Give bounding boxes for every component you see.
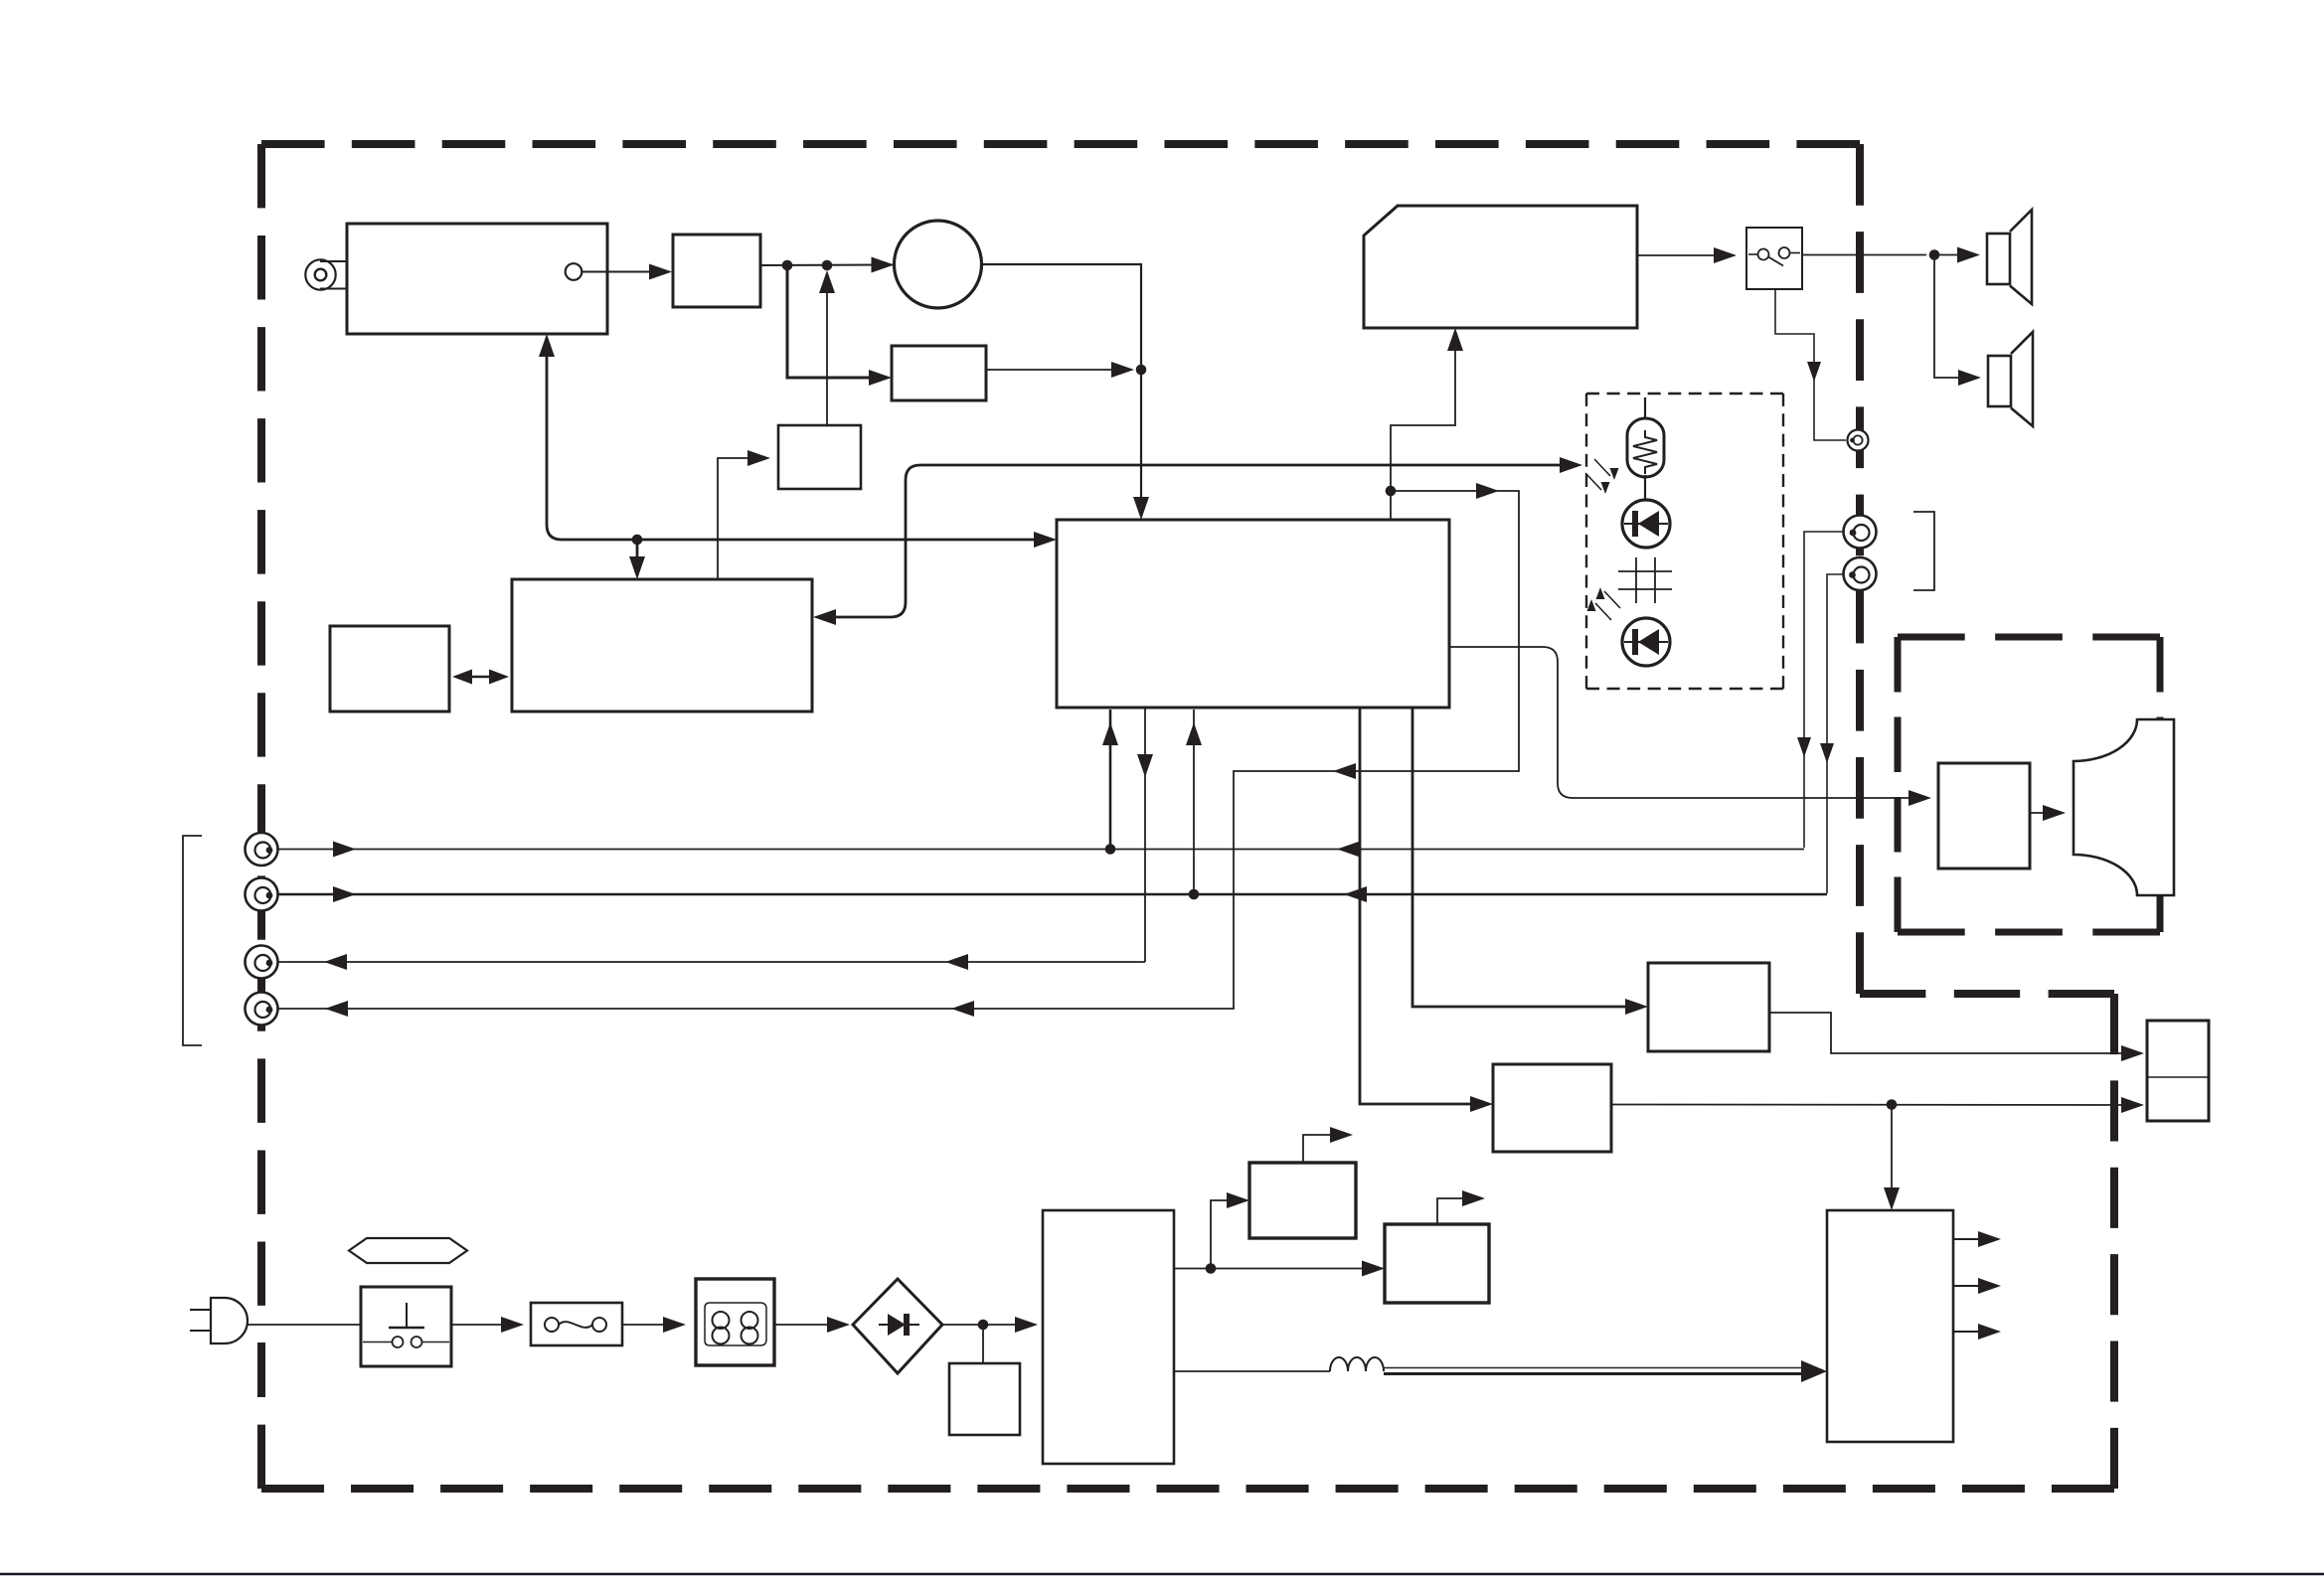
wire node1 down to EQ block <box>787 265 884 378</box>
wire motor to main IC <box>982 264 1142 513</box>
wire right jack B down to line2 <box>1827 574 1850 893</box>
wire main IC to syscon right edge <box>820 465 1571 617</box>
double wire to regulator block <box>1384 1367 1803 1369</box>
power amp block <box>1364 206 1637 328</box>
junction on amp wire <box>1386 486 1397 497</box>
speaker L <box>1987 234 2010 284</box>
bidirectional arrow display/syscon <box>459 676 502 679</box>
switch side stubs <box>1748 253 1758 255</box>
regulator output 2 <box>1953 1285 1992 1287</box>
left jack 3 <box>246 946 278 979</box>
aux line 1 <box>270 849 1804 851</box>
wire PS to regulator R1 <box>1174 1268 1376 1270</box>
wire syscon area to cassette/main IC <box>547 343 1048 540</box>
LED diode symbol <box>1624 641 1668 643</box>
wire aux L to main IC <box>1109 710 1112 850</box>
light ray arrows into photodiode <box>1594 459 1610 476</box>
cassette head circle <box>566 263 582 280</box>
rectifier diode symbol <box>879 1324 919 1326</box>
remote sensor dashed box <box>1586 393 1783 395</box>
wire switch to speakers <box>1802 254 1926 256</box>
R2 output arrow <box>1303 1135 1344 1163</box>
power supply block <box>1043 1210 1174 1464</box>
power switch symbol <box>406 1303 408 1328</box>
motor circle <box>895 221 982 308</box>
regulator block <box>1827 1210 1953 1442</box>
speaker switch box <box>1746 228 1802 289</box>
EQ block <box>892 346 986 400</box>
main unit dashed border left edge <box>257 144 265 1489</box>
wire aux R to main IC <box>1193 710 1195 894</box>
switch contact right <box>1779 247 1790 258</box>
left jack 4 <box>246 993 278 1026</box>
AC cord hexagon label <box>349 1238 467 1263</box>
AC plug <box>211 1298 248 1343</box>
junction on feedback wire <box>632 535 643 546</box>
arrow mute junction down to regulator <box>1891 1105 1893 1202</box>
wire syscon to bias osc <box>718 458 761 579</box>
wire switch to fuse <box>451 1324 515 1326</box>
wire cassette to preamp + arrow <box>581 271 663 273</box>
wire network to woofer <box>2030 812 2057 814</box>
regulator output 3 <box>1953 1331 1992 1333</box>
fuse symbol <box>545 1318 559 1332</box>
wire main IC to power amp <box>1391 336 1455 520</box>
wire main IC to headphone amp <box>1449 647 1922 798</box>
aux line 2 <box>270 893 1827 896</box>
main unit dashed border top edge <box>261 140 1860 148</box>
wire preamp output <box>760 264 894 267</box>
right jacks bracket <box>1913 512 1934 590</box>
arrow into motor circle <box>872 257 895 273</box>
cassette pulley outer circle <box>305 259 335 289</box>
wire right jack A down to line1 <box>1804 532 1851 848</box>
regulator R1 block <box>1385 1224 1489 1303</box>
ripple filter block <box>1648 963 1769 1051</box>
regulator output 1 <box>1953 1238 1992 1240</box>
wire switch to phones jack <box>1775 289 1846 440</box>
wire mute to indicator <box>1611 1104 2135 1107</box>
power transformer box <box>696 1279 774 1365</box>
phones jack <box>1848 430 1869 451</box>
wire junction up to R2 <box>1211 1200 1241 1269</box>
woofer speaker <box>2074 719 2174 895</box>
junction node 2 <box>822 260 833 271</box>
wire rectifier to power supply <box>942 1324 1029 1326</box>
junction aux L <box>1105 844 1116 855</box>
speaker R <box>1988 356 2011 406</box>
speaker system dashed box <box>1898 634 2160 641</box>
left jack 1 <box>246 833 278 866</box>
arrow into system control top <box>636 540 639 571</box>
switch lever <box>1768 257 1783 266</box>
right jack A <box>1844 516 1877 549</box>
cassette mechanism block <box>347 224 607 334</box>
main unit dashed border right edge lower <box>2110 994 2118 1489</box>
regulator R2 block <box>1249 1163 1356 1238</box>
junction motor/eq output <box>1136 365 1147 376</box>
system control block <box>512 579 812 711</box>
switch contact left <box>1758 249 1769 260</box>
photo diode symbol <box>1624 523 1668 525</box>
wire transformer to rectifier <box>774 1324 841 1326</box>
junction aux R <box>1189 889 1200 900</box>
display block <box>330 626 449 711</box>
lamp bottom lead <box>1644 475 1646 500</box>
main unit dashed border notch <box>1860 990 2114 998</box>
ceramic filter symbol <box>1618 570 1672 572</box>
pulley belt top line <box>320 260 348 262</box>
lamp capsule <box>1627 418 1664 477</box>
wire amp to speaker switch <box>1637 254 1728 256</box>
arrow into main IC top <box>1133 497 1149 520</box>
bias oscillator block <box>778 425 861 489</box>
preamp block <box>673 235 760 307</box>
inductor coil <box>1330 1357 1384 1371</box>
wire main IC to ripple filter <box>1412 708 1639 1007</box>
wire PS to inductor <box>1174 1370 1330 1372</box>
junction node 1 <box>782 260 793 271</box>
left jacks bracket <box>183 836 202 1045</box>
main unit dashed border bottom edge <box>261 1485 2114 1493</box>
indicator block <box>2147 1021 2209 1121</box>
junction speaker wire <box>1929 249 1940 260</box>
R1 output arrow <box>1437 1198 1476 1224</box>
wire junction to line-out L <box>270 491 1519 1009</box>
wire main IC to line3 <box>1144 708 1146 962</box>
transformer coils <box>705 1303 766 1328</box>
pulley belt bottom line <box>320 288 348 290</box>
left jack 2 <box>246 878 278 911</box>
wire main IC to mute block <box>1360 708 1484 1104</box>
page footer rule <box>0 1573 2324 1576</box>
wire bias osc up-arrow <box>826 274 828 425</box>
network block <box>1938 763 2030 868</box>
fuse box <box>531 1303 622 1345</box>
junction PS output <box>1206 1263 1217 1274</box>
photo diode circle <box>1622 500 1670 548</box>
lamp top lead <box>1644 397 1646 431</box>
bridge rectifier diamond <box>853 1279 942 1373</box>
light ray arrows from LED <box>1604 591 1620 608</box>
junction mute wire <box>1887 1099 1898 1110</box>
cassette pulley inner circle <box>315 269 327 281</box>
wire EQ output to node <box>986 369 1126 371</box>
LED circle <box>1622 618 1670 666</box>
wire junction to capacitor block <box>982 1325 984 1363</box>
arrow into speaker L <box>1934 254 1972 256</box>
mute block <box>1493 1064 1611 1152</box>
main controller IC block <box>1057 520 1449 708</box>
line out 3 <box>270 961 1145 963</box>
lamp resistor zigzag <box>1633 430 1657 474</box>
wire plug to power switch <box>248 1324 361 1326</box>
wire junction to speaker R <box>1934 255 1973 379</box>
junction rectifier output <box>978 1320 989 1331</box>
wire ripple filter to indicator <box>1769 1013 2135 1053</box>
power switch box <box>361 1287 451 1366</box>
wire fuse to transformer <box>622 1324 677 1326</box>
right jack B <box>1844 557 1877 590</box>
main unit dashed border right edge upper <box>1856 144 1864 994</box>
capacitor block <box>949 1363 1020 1435</box>
